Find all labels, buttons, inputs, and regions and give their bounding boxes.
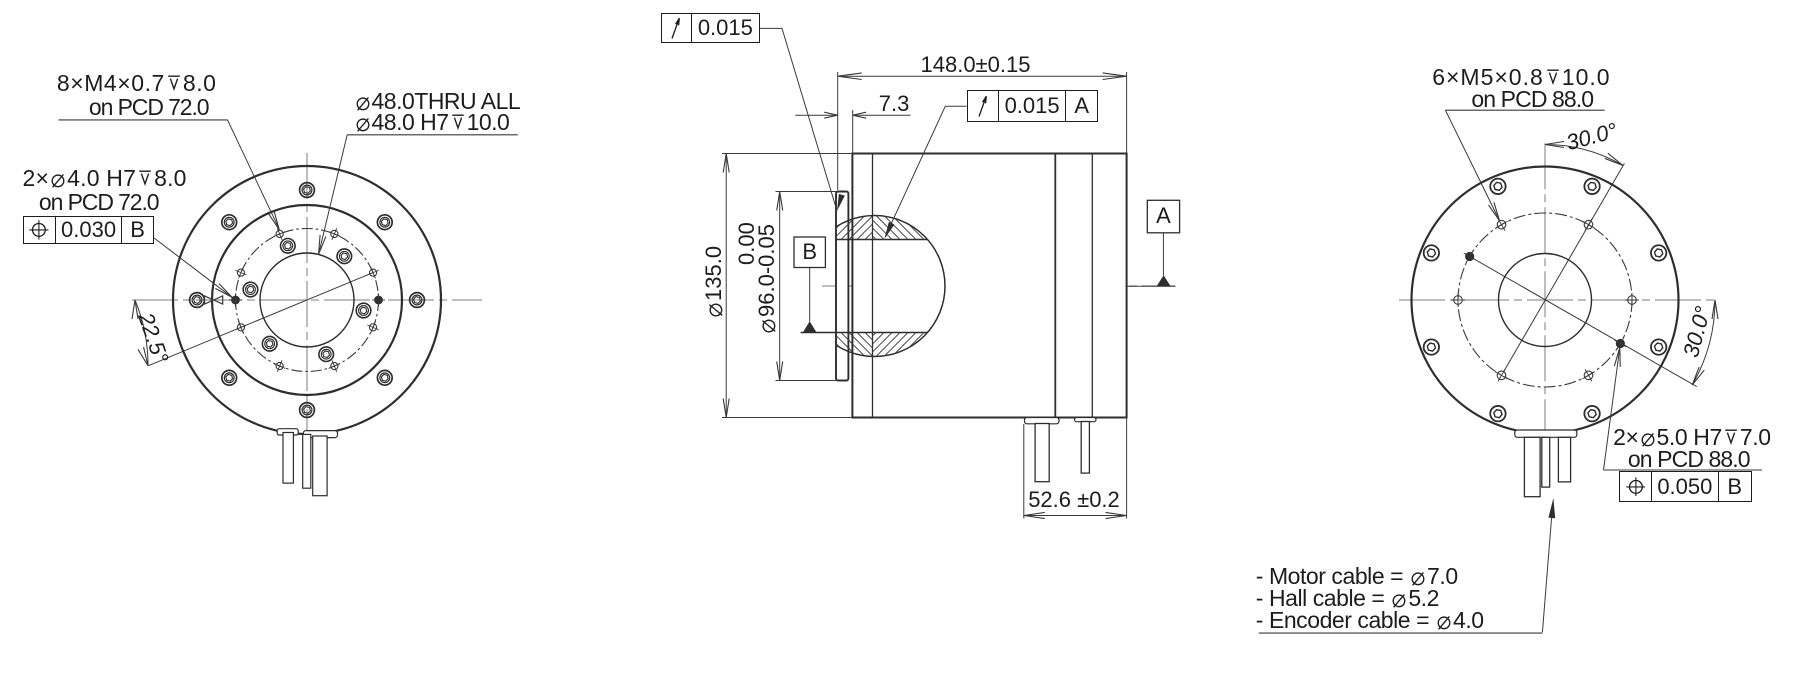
dim D135 extension top bbox=[722, 153, 852, 155]
dim 148 extension line left bbox=[837, 72, 839, 190]
centerline solid extension right bbox=[1127, 285, 1176, 287]
side view body outline bbox=[852, 154, 1126, 418]
rear view outer bolt hole 7 at 292.5deg bbox=[1584, 406, 1599, 421]
dim 52.6 extension right bbox=[1126, 418, 1128, 519]
label 6xM5 line1 bbox=[1432, 66, 1610, 89]
rear view motor cable bbox=[1524, 437, 1540, 496]
label 2xD5 line1 bbox=[1613, 426, 1771, 449]
side view rear cover line bbox=[1091, 154, 1093, 418]
left view socket screw 5 at 289.5deg bbox=[319, 347, 334, 362]
rear view outer bolt hole 4 at 157.5deg bbox=[1424, 245, 1439, 260]
FCF position 0.030 B frame bbox=[23, 216, 155, 245]
datum A triangle bbox=[1157, 275, 1171, 286]
left view M4 tapped hole 1 at 22.5deg bbox=[369, 269, 376, 276]
label hall cable bbox=[1256, 587, 1439, 610]
rear view leader pin FCF bbox=[1604, 352, 1620, 471]
left view bore circle D48 bbox=[260, 253, 354, 347]
label 6xM5 underline bbox=[1445, 109, 1604, 111]
left view horizontal centerline bbox=[132, 299, 482, 301]
datum B letter bbox=[794, 237, 825, 268]
rear view horizontal centerline bbox=[1399, 299, 1719, 301]
dim D96 dimension line bbox=[779, 192, 781, 381]
left view outer bolt hole 3 at 90deg bbox=[300, 183, 315, 198]
rear view cable gland bracket bbox=[1515, 430, 1577, 437]
rear view 60deg reference line bbox=[1504, 163, 1625, 371]
label 8xM4 underline bbox=[58, 119, 227, 121]
datum B box bbox=[794, 237, 825, 268]
left view 22.5deg reference line bbox=[148, 273, 373, 366]
label 148.0 bbox=[921, 54, 1031, 76]
rear view outer circle D135 bbox=[1412, 167, 1679, 434]
left view outer flange circle D135 bbox=[173, 166, 441, 434]
label 30deg top bbox=[1564, 120, 1620, 155]
dim 148 extension line right bbox=[1126, 72, 1128, 154]
left view outer bolt hole 6 at 225deg bbox=[222, 370, 237, 385]
rear view M5 tapped hole 2 at 60deg bbox=[1584, 220, 1593, 229]
left view socket screw 2 at 109.5deg bbox=[281, 239, 296, 254]
left view M4 tapped hole 8 at 337.5deg bbox=[369, 324, 376, 331]
side view bearing boss circle bbox=[804, 216, 945, 357]
dim 7.3 dimension line left tail bbox=[795, 114, 837, 116]
label cable note underline bbox=[1259, 632, 1543, 634]
side view encoder cable bbox=[1081, 422, 1089, 474]
left view socket screw 4 at 229.5deg bbox=[262, 336, 277, 351]
left view bolt circle PCD72 dashed bbox=[236, 229, 379, 372]
dim 52.6 extension left bbox=[1023, 424, 1025, 519]
rear view leader M5 callout bbox=[1445, 110, 1499, 220]
dim 7.3 extension line bbox=[852, 110, 854, 154]
rear view M5 tapped hole 6 at 300deg bbox=[1584, 371, 1593, 380]
label 52.6 bbox=[1028, 489, 1120, 511]
dim 148 dimension line bbox=[838, 75, 1127, 77]
rear view outer bolt hole 5 at 202.5deg bbox=[1424, 339, 1439, 354]
rear view outer bolt hole 8 at 337.5deg bbox=[1651, 339, 1666, 354]
label D135 rotated bbox=[703, 246, 725, 319]
datum A letter bbox=[1147, 200, 1179, 233]
rear view bore circle bbox=[1499, 254, 1592, 347]
left view socket screw 3 at 169.5deg bbox=[243, 282, 258, 297]
rear view 30deg dimension arc top bbox=[1545, 145, 1623, 166]
rear view outer bolt hole 3 at 112.5deg bbox=[1490, 179, 1505, 194]
left view leader pin FCF bbox=[154, 238, 232, 297]
rear view outer bolt hole 2 at 67.5deg bbox=[1584, 179, 1599, 194]
left view pilot boss circle D96 bbox=[212, 205, 402, 395]
rear view 30deg dimension arc right bbox=[1692, 300, 1715, 385]
label 8xM4 line1 bbox=[57, 72, 217, 95]
side view motor cable bracket bbox=[1025, 418, 1060, 424]
rear view hall cable bbox=[1558, 437, 1570, 482]
FCF runout 0.015-A leader bbox=[885, 106, 966, 236]
rear view cable note leader bbox=[1542, 505, 1552, 632]
dim D96 extension top bbox=[776, 191, 837, 193]
left view leader M4 callout bbox=[228, 120, 280, 229]
rear view M5 tapped hole 3 at 120deg bbox=[1497, 220, 1506, 229]
left view outer bolt hole 7 at 270deg bbox=[300, 403, 315, 418]
side view motor cable bbox=[1035, 424, 1049, 482]
left view M4 tapped hole 3 at 112.5deg bbox=[276, 230, 283, 237]
label D96 rotated bbox=[756, 224, 778, 335]
side view front plate line bbox=[872, 154, 874, 418]
dim D135 extension bottom bbox=[722, 417, 852, 419]
left view M4 tapped hole 5 at 202.5deg bbox=[237, 324, 244, 331]
datum B triangle bbox=[803, 321, 816, 332]
label 2xD5 underline bbox=[1604, 469, 1763, 471]
datum A leader line bbox=[1162, 233, 1164, 276]
label 6xM5 line2 bbox=[1471, 88, 1593, 111]
label D48 underline bbox=[347, 134, 518, 136]
label 30deg right bbox=[1680, 304, 1715, 360]
left view leader bore callout bbox=[319, 135, 347, 253]
label motor cable bbox=[1256, 565, 1458, 588]
rear view encoder cable bbox=[1542, 437, 1550, 487]
left view M4 tapped hole 2 at 67.5deg bbox=[331, 230, 338, 237]
rear view outer bolt hole 6 at 247.5deg bbox=[1490, 406, 1505, 421]
left view hall cable bbox=[283, 433, 293, 484]
left view outer bolt hole 4 at 135deg bbox=[222, 215, 237, 230]
label 2xD5 line2 bbox=[1628, 448, 1750, 471]
FCF position 0.050 B frame bbox=[1619, 471, 1751, 502]
left view outer bolt hole 8 at 315deg bbox=[377, 370, 392, 385]
dim D135 dimension line bbox=[725, 154, 727, 418]
left view outer bolt hole 2 at 45deg bbox=[377, 215, 392, 230]
left view outer bolt hole 1 at 0deg bbox=[410, 293, 425, 308]
label 7.3 bbox=[879, 93, 910, 115]
side view encoder cable bracket bbox=[1075, 418, 1096, 422]
label encoder cable bbox=[1256, 609, 1484, 632]
datum A box bbox=[1147, 200, 1179, 233]
FCF runout 0.015 frame bbox=[661, 13, 760, 43]
side view horizontal centerline bbox=[822, 285, 1176, 287]
left view motor cable bbox=[313, 436, 327, 496]
dim D96 extension bottom bbox=[776, 380, 837, 382]
dim 52.6 dimension line bbox=[1024, 515, 1127, 517]
rear view pin axis reference line bbox=[1465, 254, 1696, 387]
label D96 tol rotated bbox=[736, 222, 758, 265]
left view outer bolt hole 5 at 180deg bbox=[190, 293, 205, 308]
left view dowel pin D4 left at 180deg bbox=[232, 296, 240, 304]
label 2xD4 line1 bbox=[23, 167, 187, 190]
left view datum bowtie marks on D96 circle bbox=[205, 296, 214, 304]
side view front flange D96 bbox=[836, 192, 848, 381]
side view rear joint line bbox=[1054, 154, 1056, 418]
rear view dowel pin D5 lower-right at 330deg bbox=[1616, 339, 1624, 347]
side view bore line top bbox=[836, 239, 928, 241]
rear view M5 tapped hole 1 at 0deg bbox=[1628, 296, 1637, 305]
left view socket screw 1 at 49.5deg bbox=[337, 249, 352, 264]
rear view vertical centerline bbox=[1544, 143, 1546, 446]
side view bore line bottom bbox=[801, 332, 928, 334]
FCF runout 0.015 leader bbox=[760, 28, 837, 208]
label 22.5deg angle bbox=[134, 310, 172, 366]
left view dowel pin D4 right at 0deg bbox=[375, 296, 383, 304]
rear view M5 tapped hole 5 at 240deg bbox=[1497, 371, 1506, 380]
left view M4 tapped hole 7 at 292.5deg bbox=[331, 362, 338, 369]
label 2xD4 line2 bbox=[39, 191, 159, 214]
left view cable gland bracket left bbox=[277, 429, 298, 435]
left view 22.5deg dimension arc bbox=[135, 300, 148, 366]
rear view outer bolt hole 1 at 22.5deg bbox=[1651, 245, 1666, 260]
left view cable gland bracket right bbox=[303, 431, 337, 438]
label D48 line2 bbox=[354, 111, 510, 134]
left view vertical centerline bbox=[306, 153, 308, 447]
left view M4 tapped hole 4 at 157.5deg bbox=[237, 269, 244, 276]
left view socket screw 6 at 349.5deg bbox=[356, 303, 371, 318]
label D48 line1 bbox=[354, 90, 521, 113]
left view M4 tapped hole 6 at 247.5deg bbox=[276, 362, 283, 369]
FCF runout 0.015 A frame bbox=[967, 90, 1099, 122]
side view section hatch bbox=[545, 196, 1205, 376]
datum B leader line bbox=[809, 268, 811, 322]
rear view bolt circle PCD88 dashed bbox=[1458, 213, 1632, 387]
dim 7.3 dimension line right tail bbox=[853, 114, 911, 116]
label 8xM4 line2 bbox=[89, 96, 209, 119]
rear view dowel pin D5 upper-left at 150deg bbox=[1466, 252, 1474, 260]
left view encoder cable bbox=[303, 434, 311, 488]
rear view M5 tapped hole 4 at 180deg bbox=[1454, 296, 1463, 305]
